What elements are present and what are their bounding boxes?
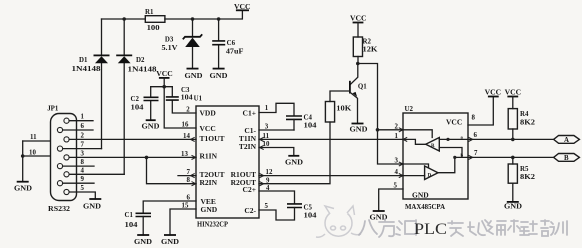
- svg-text:GND: GND: [412, 190, 429, 199]
- svg-text:D1: D1: [79, 57, 88, 64]
- svg-text:R: R: [431, 144, 435, 149]
- svg-text:5.1V: 5.1V: [162, 45, 178, 52]
- pin 4 C2+ wire to C5: [259, 185, 295, 204]
- wire DB9 pin7 to D1: [60, 148, 102, 150]
- svg-text:4: 4: [266, 185, 270, 192]
- pin 8 label U1 + arrow: [187, 177, 196, 186]
- svg-text:10K: 10K: [336, 106, 352, 113]
- op-amp U1 HIN232CP: [194, 95, 259, 228]
- diode D3 zener 5.1V: [162, 19, 203, 69]
- svg-text:C6: C6: [227, 40, 236, 47]
- svg-text:1: 1: [395, 133, 399, 140]
- port A: [554, 136, 580, 145]
- buffer D triangle U2: [403, 157, 468, 179]
- svg-text:1: 1: [265, 105, 269, 112]
- svg-text:C4: C4: [304, 115, 313, 122]
- wire T1OUT line DB9 pin2 to U1 pin14: [69, 138, 196, 140]
- svg-text:104: 104: [131, 104, 145, 111]
- svg-text:VCC: VCC: [200, 124, 216, 133]
- svg-text:GND: GND: [83, 203, 101, 210]
- svg-text:C1: C1: [125, 212, 134, 219]
- svg-text:3: 3: [81, 150, 85, 157]
- ground (left): [14, 182, 32, 193]
- svg-text:C5: C5: [304, 205, 313, 212]
- node junction A inside: [446, 138, 449, 141]
- ground (R5): [504, 202, 522, 211]
- svg-text:100: 100: [147, 25, 161, 32]
- svg-text:1: 1: [81, 114, 85, 121]
- svg-text:PLC: PLC: [414, 221, 447, 238]
- svg-text:104: 104: [181, 95, 194, 102]
- port B: [554, 154, 580, 163]
- node junction left: [21, 154, 25, 158]
- svg-text:104: 104: [125, 222, 139, 229]
- svg-text:R5: R5: [520, 166, 529, 173]
- svg-text:GND: GND: [185, 73, 203, 80]
- svg-text:104: 104: [304, 213, 318, 220]
- svg-text:GND: GND: [201, 205, 218, 214]
- wire top rail VCC: [102, 10, 243, 19]
- svg-text:8: 8: [81, 159, 85, 166]
- svg-text:C2+: C2+: [243, 185, 256, 194]
- svg-text:GND: GND: [161, 239, 179, 246]
- ground (U2 pin5): [370, 211, 388, 222]
- power VCC mid: [156, 71, 173, 87]
- capacitor C6 47uF: [212, 19, 243, 69]
- svg-text:C2-: C2-: [244, 206, 256, 215]
- ground (U1 pin15): [161, 235, 179, 246]
- svg-text:GND: GND: [350, 127, 368, 134]
- wire VCC to U1 pin16: [164, 87, 196, 128]
- wire VCC rail to C2 C3: [151, 86, 173, 88]
- pin 6 stub JP1: [63, 123, 93, 130]
- svg-text:12K: 12K: [363, 47, 379, 54]
- ground (D3): [185, 69, 203, 80]
- pin 5 stub JP1: [69, 185, 95, 199]
- wire net 11: [23, 134, 50, 141]
- pin 13 label U1 + arrow: [181, 151, 196, 160]
- svg-text:5: 5: [394, 182, 398, 189]
- resistor R4 8K2: [508, 109, 535, 140]
- pin 14 label U1 + arrow: [183, 133, 195, 142]
- pin 3 C1- wire: [259, 123, 294, 130]
- svg-text:13: 13: [181, 151, 188, 158]
- svg-text:5: 5: [265, 203, 269, 210]
- svg-text:6: 6: [81, 123, 85, 130]
- node junction C6-rail: [217, 17, 221, 21]
- svg-text:104: 104: [304, 123, 318, 130]
- svg-text:4: 4: [81, 167, 85, 174]
- pin 8 U2 wire to VCC: [468, 97, 493, 126]
- power VCC R2: [350, 16, 367, 37]
- wire R1IN line DB9 pin3 to U1 pin13: [69, 156, 196, 158]
- svg-text:a: a: [461, 134, 464, 139]
- svg-text:2: 2: [81, 132, 85, 139]
- power VCC top-right: [234, 4, 251, 11]
- capacitor C2 104: [131, 87, 159, 121]
- svg-text:R1IN: R1IN: [200, 152, 218, 161]
- svg-text:6: 6: [474, 132, 478, 139]
- pin 1 stub JP1: [69, 114, 93, 121]
- svg-text:VCC: VCC: [485, 90, 502, 97]
- node junction R1IN-R2IN: [145, 156, 149, 160]
- pin 1 C1+ wire to C4: [259, 103, 294, 115]
- svg-text:VDD: VDD: [200, 109, 217, 118]
- pin 9 R2OUT wire to 10K: [259, 122, 330, 186]
- pin 6 VEE wire to C1: [143, 195, 196, 214]
- svg-text:2: 2: [186, 107, 190, 114]
- svg-text:GND: GND: [14, 186, 32, 193]
- power VCC R4: [505, 90, 522, 109]
- node junction D2-rail: [122, 17, 126, 21]
- watermark logo and text: [316, 206, 361, 237]
- svg-text:D: D: [428, 173, 432, 178]
- svg-text:GND: GND: [504, 203, 522, 210]
- svg-text:GND: GND: [285, 160, 303, 167]
- power VCC U2: [485, 90, 502, 97]
- wire T1IN line U1 pin11 to U2 pin1: [259, 133, 403, 142]
- svg-text:4: 4: [395, 169, 399, 176]
- node junction VCC-mid: [162, 85, 166, 89]
- svg-text:8K2: 8K2: [520, 120, 536, 127]
- svg-text:Q1: Q1: [358, 84, 367, 91]
- svg-text:11: 11: [30, 134, 37, 141]
- svg-text:T2IN: T2IN: [239, 142, 257, 151]
- resistor R5 8K2: [508, 157, 535, 202]
- capacitor C3 104: [166, 87, 196, 113]
- svg-text:U2: U2: [405, 106, 414, 113]
- svg-text:C1+: C1+: [243, 109, 256, 118]
- svg-text:JP1: JP1: [47, 106, 59, 113]
- svg-text:R1: R1: [145, 9, 154, 16]
- svg-text:16: 16: [182, 122, 189, 129]
- svg-text:R2IN: R2IN: [200, 178, 218, 187]
- node junction R5-B: [511, 156, 515, 160]
- svg-text:11: 11: [263, 133, 270, 140]
- buffer R triangle U2: [403, 130, 468, 158]
- resistor R3 10K base: [325, 91, 352, 122]
- node junction D3-rail: [191, 17, 195, 21]
- svg-text:GND: GND: [134, 239, 152, 246]
- svg-text:3: 3: [265, 123, 269, 130]
- svg-text:1N4148: 1N4148: [128, 66, 158, 73]
- ground (C6): [210, 69, 228, 80]
- svg-text:8K2: 8K2: [520, 174, 536, 181]
- wire B line U2 pin7 to port: [468, 150, 554, 159]
- ground (C1): [134, 235, 152, 246]
- svg-text:A: A: [564, 137, 569, 144]
- svg-text:B: B: [564, 155, 569, 162]
- pin 15 GND wire: [170, 203, 196, 236]
- svg-text:VCC: VCC: [505, 90, 522, 97]
- svg-text:7: 7: [81, 142, 85, 149]
- svg-text:1N4148: 1N4148: [72, 66, 102, 73]
- transistor Q1: [350, 64, 367, 124]
- svg-text:10: 10: [29, 149, 36, 156]
- svg-text:R4: R4: [520, 111, 529, 118]
- svg-text:HIN232CP: HIN232CP: [197, 220, 228, 229]
- svg-text:8: 8: [187, 177, 191, 184]
- wire left to ground: [22, 141, 24, 182]
- svg-text:GND: GND: [142, 124, 160, 131]
- svg-text:MAX485CPA: MAX485CPA: [405, 204, 445, 211]
- diode D1 1N4148: [72, 19, 110, 149]
- svg-text:2: 2: [395, 123, 399, 130]
- svg-text:12: 12: [266, 169, 273, 176]
- resistor R2 12K: [353, 37, 378, 64]
- svg-text:3: 3: [395, 157, 399, 164]
- svg-text:U1: U1: [194, 95, 203, 102]
- pin labels U2 left: [394, 123, 408, 189]
- svg-text:b: b: [461, 152, 464, 157]
- capacitor C1 104: [125, 212, 152, 235]
- svg-text:C2: C2: [131, 96, 140, 103]
- connector JP1 DB9 RS232: [47, 106, 76, 213]
- svg-text:VCC: VCC: [446, 118, 462, 127]
- svg-text:T1OUT: T1OUT: [200, 134, 225, 143]
- node junction collector: [356, 62, 360, 66]
- wire collector to U2 pin2 pin3: [358, 64, 403, 165]
- svg-text:9: 9: [266, 177, 270, 184]
- wire net 10: [23, 149, 50, 156]
- pin 9 stub JP1: [63, 176, 94, 183]
- wire R1OUT line U1 pin12 to U2 pin4: [259, 169, 403, 178]
- pin 10 T2IN wire to ground: [259, 141, 294, 156]
- capacitor C4 104: [286, 115, 317, 130]
- svg-text:6: 6: [187, 195, 191, 202]
- node junction B inside: [453, 156, 456, 159]
- svg-text:VCC: VCC: [350, 16, 367, 23]
- wire to R2IN: [147, 157, 197, 183]
- svg-text:10: 10: [263, 141, 270, 148]
- svg-text:8: 8: [472, 114, 476, 121]
- svg-text:9: 9: [81, 176, 85, 183]
- pin 7 stub U1 T2OUT: [178, 169, 196, 178]
- svg-text:R2: R2: [363, 39, 372, 46]
- svg-text:D3: D3: [165, 37, 174, 44]
- svg-text:RS232: RS232: [48, 206, 71, 213]
- ground (U1 pin10): [285, 156, 303, 167]
- svg-text:14: 14: [183, 133, 190, 140]
- capacitor C5 104: [259, 204, 317, 220]
- ground (C2): [142, 120, 160, 131]
- svg-text:5: 5: [81, 185, 85, 192]
- node junction RE-DE: [376, 128, 380, 132]
- svg-text:7: 7: [474, 150, 478, 157]
- svg-text:47uF: 47uF: [226, 49, 244, 56]
- ground (Q1): [350, 124, 368, 134]
- svg-text:C3: C3: [181, 87, 190, 94]
- svg-text:D2: D2: [136, 57, 145, 64]
- node junction R4-A: [511, 138, 515, 142]
- wire A line U2 pin6 to port: [468, 132, 554, 141]
- pin 8 stub JP1: [63, 159, 94, 166]
- ground (JP1 pin5): [83, 199, 101, 210]
- wire DB9 pin4 to D2: [67, 173, 125, 175]
- svg-text:15: 15: [182, 203, 189, 210]
- op-amp U2 MAX485CPA: [403, 106, 468, 211]
- pin 5 U2 wire to ground: [379, 189, 403, 211]
- svg-text:GND: GND: [210, 73, 228, 80]
- resistor R1: [145, 9, 165, 32]
- diode D2 1N4148: [116, 19, 157, 174]
- svg-text:7: 7: [187, 169, 191, 176]
